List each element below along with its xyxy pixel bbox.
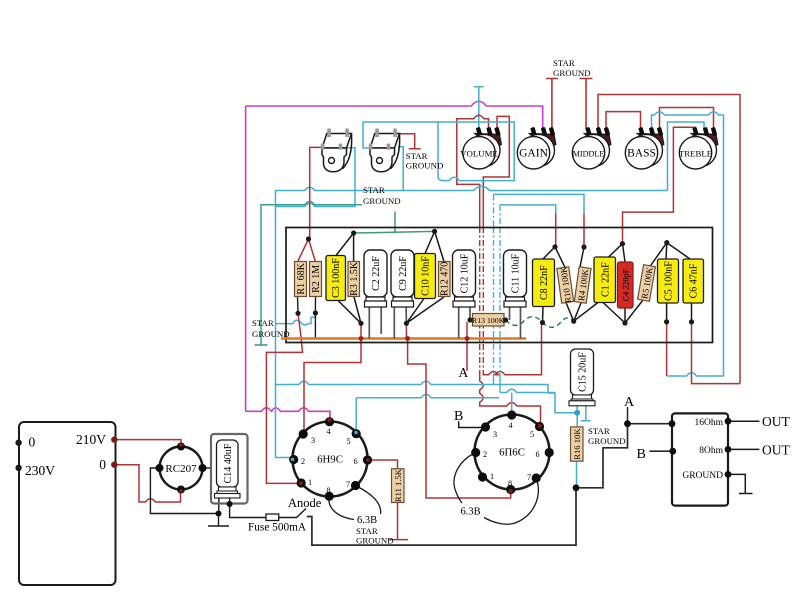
capacitor C1 22nF [594, 257, 616, 303]
jack J1 [321, 129, 352, 172]
wire: cyan C8 R10 line y205 [500, 205, 556, 213]
svg-text:3: 3 [311, 436, 315, 445]
node: R5 C5 C6 diagonals [625, 243, 692, 323]
wire: black node B stub to box [649, 450, 672, 452]
node bus tap 3 [465, 336, 470, 341]
svg-text:TREBLE: TREBLE [679, 148, 712, 158]
capacitor C6 47nF [683, 259, 704, 303]
capacitor C2 legs [369, 307, 381, 339]
svg-text:STAR: STAR [356, 526, 378, 536]
svg-text:R11 1.5K: R11 1.5K [393, 468, 403, 502]
wire: cyan C15 right leg to star ground bar [581, 406, 591, 421]
node C10R12 top [432, 229, 437, 234]
wire: cyan dashed vertical 2 [499, 205, 501, 370]
svg-text:6H9C: 6H9C [317, 454, 343, 466]
svg-text:R2 1M: R2 1M [311, 265, 322, 293]
potentiometer MIDDLE [572, 127, 611, 169]
transformer terminals [15, 440, 21, 471]
svg-text:VOLUME: VOLUME [460, 148, 498, 158]
red pin accents [299, 418, 542, 493]
svg-text:R12 470: R12 470 [440, 262, 451, 296]
orange bus rail [281, 337, 526, 340]
node R1 bottom [295, 311, 300, 316]
wire: black out box ground [728, 474, 753, 493]
fuse F1 body [266, 514, 279, 521]
svg-text:6.3B: 6.3B [357, 515, 377, 526]
node C6 bottom [689, 319, 694, 324]
svg-text:C15 20uF: C15 20uF [578, 352, 589, 392]
node bus tap 2 [405, 336, 410, 341]
wire: magenta left vertical border [245, 106, 247, 411]
capacitor C4 220pF red [618, 262, 634, 308]
capacitor C10 10nF [415, 254, 436, 299]
tube V2 6P6C socket [471, 410, 554, 494]
svg-text:Anode: Anode [288, 496, 322, 510]
svg-text:2: 2 [301, 457, 305, 466]
green dashed wavy link R13 to R10 R4 node [506, 317, 574, 328]
wire: cyan C15 left leg [576, 406, 578, 413]
wire: cyan TREBLE pin B to long mid horizontal [668, 122, 705, 191]
capacitor C9 legs [394, 307, 406, 339]
svg-text:6.3B: 6.3B [461, 507, 481, 518]
svg-text:GROUND: GROUND [363, 196, 401, 206]
wire: red R1 bottom to anode rail to 6H9C pin 1 [266, 313, 302, 483]
cyan pin accents [291, 431, 358, 462]
svg-text:C8 22nF: C8 22nF [539, 265, 550, 300]
svg-text:R1 68K: R1 68K [296, 262, 307, 294]
node: C1 diagonals [574, 244, 625, 323]
svg-text:C5 100nF: C5 100nF [664, 261, 675, 301]
ground bar: C14 ground T-bar [208, 525, 229, 527]
wire: black out box 8 Ohm to OUT [728, 448, 759, 450]
output box terminal dots [669, 418, 732, 478]
node: C3 R3 bottom fan [338, 297, 361, 323]
wire: red C5 bottom down [666, 322, 668, 376]
wire: magenta horizontal to 6H9C pin 4 [246, 408, 330, 422]
svg-text:A: A [459, 365, 469, 380]
heater arc: 6P6C pin 7 to 6.3B [484, 478, 538, 524]
capacitor C14 40uF with can [211, 434, 248, 504]
wire: red BASS pin C to TREBLE pin C [660, 108, 714, 130]
svg-text:8: 8 [508, 479, 512, 488]
node bus tap 1 [359, 336, 364, 341]
wire: black C14 right leg to fuse line [230, 498, 266, 518]
svg-text:R16 10K: R16 10K [572, 428, 582, 460]
heater arc: 6P6C pin 2 to 6.3B [454, 453, 476, 504]
wire: red riser into R4 node [583, 213, 585, 247]
wire: cyan long horizontal y190 [276, 186, 668, 457]
wire: teal star ground line under jack1 [261, 202, 362, 345]
node R4 top [581, 244, 586, 249]
wire: cyan into board to R2 bottom [276, 313, 316, 325]
wire: red dashed vertical 2 through board [482, 227, 484, 370]
capacitor C3 100nF [326, 256, 346, 301]
svg-text:RC207: RC207 [165, 463, 197, 475]
wire: red vertical 2 to C8 bottom [483, 323, 541, 375]
wire: red TREBLE pin A to C1 C4 top node [623, 127, 696, 244]
wire: green riser from star ground text to board bus [394, 212, 396, 234]
capacitor C5 100nF [658, 259, 679, 303]
wire: cyan jack1 sleeve loop [276, 148, 356, 207]
capacitor C12 10uF electrolytic [453, 250, 476, 307]
junction dots bottom section [216, 420, 631, 516]
svg-text:STAR: STAR [588, 426, 610, 436]
node R10R4 bottom [571, 319, 576, 324]
heater arc: 6H9C pin 7 to 6.3B [356, 486, 381, 515]
svg-text:OUT: OUT [762, 414, 790, 429]
wire: cyan pin2 horizontal y384 to C15 riser [276, 381, 578, 413]
tube V1 6H9C socket [289, 417, 372, 501]
svg-text:B: B [637, 447, 646, 462]
potentiometer VOLUME [460, 127, 501, 169]
svg-text:4: 4 [327, 427, 331, 436]
wire: red bus tap to 6P6C pin 8 [408, 339, 511, 499]
junction dot cyan C15 [574, 410, 580, 416]
svg-text:230V: 230V [25, 463, 55, 478]
wire: magenta top horizontal to GAIN pin B [246, 101, 543, 129]
svg-text:B: B [454, 409, 463, 424]
svg-text:2: 2 [483, 450, 487, 459]
node C8 bottom [540, 320, 545, 325]
svg-text:1: 1 [308, 478, 312, 487]
node C8 top [552, 244, 557, 249]
node R2 bottom [313, 310, 318, 315]
wire: cyan pin5 line y398 [356, 395, 499, 398]
wire: red vertical 1 to 6P6C pin 5 [480, 372, 541, 427]
wire: black C14 left leg [218, 498, 220, 514]
potentiometer BASS [625, 127, 664, 169]
wire: red C3 R3 node down to 6H9C pin 3 [304, 323, 361, 434]
output transformer box [672, 413, 728, 505]
svg-text:GROUND: GROUND [553, 68, 591, 78]
node R13 C11 [503, 317, 508, 322]
resistor R10 100K [557, 265, 574, 303]
svg-text:C6 47nF: C6 47nF [689, 263, 700, 298]
svg-text:GROUND: GROUND [252, 329, 290, 339]
rectifier RC207 [156, 443, 207, 494]
svg-text:GROUND: GROUND [588, 436, 626, 446]
node C3R3 bottom [358, 321, 363, 326]
capacitor C15 20uF [569, 349, 595, 406]
svg-text:BASS: BASS [627, 147, 656, 159]
node: C10 R12 bottom fan [406, 297, 444, 323]
svg-text:C11 10uF: C11 10uF [511, 253, 522, 293]
node C1C4 top [620, 241, 625, 246]
svg-text:MIDDLE: MIDDLE [573, 149, 605, 158]
wire: cyan antenna T above VOLUME pin A [474, 87, 484, 128]
wire: black fuse to anode switch [279, 509, 306, 518]
node C9C10 bottom [404, 321, 409, 326]
resistor R2 1M [310, 262, 323, 297]
node C12 R13 [467, 317, 472, 322]
potentiometer GAIN [517, 127, 556, 169]
wire: red riser into C8 R10 node [555, 213, 557, 247]
svg-text:C14 40uF: C14 40uF [223, 443, 234, 483]
wire: cyan BASS pin B to right long vertical [652, 112, 724, 376]
wire: black RC207 right to C14 [204, 467, 211, 469]
node: R4 diagonals [566, 247, 584, 321]
resistor R3 1.5K [348, 261, 360, 296]
svg-text:5: 5 [530, 430, 534, 439]
svg-text:STAR: STAR [363, 185, 385, 195]
wire: red dashed vertical 1 through board [479, 227, 481, 372]
wire: cyan jack2 tip loop [363, 122, 514, 181]
wire: red GAIN pin B riser none / MIDDLE pin B to far right vertical [598, 95, 740, 384]
capacitor C9 22uF electrolytic [391, 250, 414, 307]
resistor R5 100K [638, 265, 656, 302]
svg-text:C9 22uF: C9 22uF [398, 256, 409, 291]
svg-text:C4 220pF: C4 220pF [622, 268, 631, 301]
transformer T1 box [19, 422, 116, 585]
svg-text:STAR: STAR [406, 151, 428, 161]
svg-text:210V: 210V [76, 432, 106, 447]
svg-text:C2 22uF: C2 22uF [371, 256, 382, 291]
capacitor C11 legs [510, 307, 521, 339]
svg-text:16Ohm: 16Ohm [695, 418, 724, 428]
capacitor C2 22uF electrolytic [364, 250, 387, 307]
node: C10 top fan [425, 231, 444, 261]
resistor R16 10K [571, 427, 584, 461]
svg-text:0: 0 [99, 457, 106, 472]
svg-text:8Ohm: 8Ohm [699, 446, 723, 456]
wire: red C9 C10 node through bus down [405, 323, 407, 338]
svg-text:C10 10nF: C10 10nF [421, 256, 432, 296]
svg-text:6: 6 [536, 450, 540, 459]
svg-text:Fuse 500mA: Fuse 500mA [248, 522, 307, 534]
node R1R2 top [306, 236, 311, 241]
wire: red jack2 tip to star ground T [397, 134, 421, 149]
wire: cyan riser to 6H9C pin 5 [355, 398, 357, 434]
wire: green bus on board [354, 231, 435, 233]
svg-text:GROUND: GROUND [682, 471, 723, 481]
svg-text:5: 5 [347, 437, 351, 446]
svg-text:R3 1.5K: R3 1.5K [349, 261, 360, 296]
svg-text:OUT: OUT [762, 443, 790, 458]
svg-text:7: 7 [346, 480, 350, 489]
wire: cyan jack2 sleeve drop to long line [398, 147, 403, 191]
junction dots on board [295, 229, 694, 326]
wire: black anode switch to bottom rail [307, 488, 576, 545]
capacitor C11 10uF electrolytic [504, 250, 527, 307]
node C4 bottom [622, 320, 627, 325]
svg-text:GROUND: GROUND [356, 536, 394, 546]
capacitor C8 22nF [533, 259, 555, 307]
svg-text:A: A [624, 395, 635, 410]
wire: red jack1 tip down to R1 R2 node [298, 147, 323, 262]
node: C3 R3 top fan [336, 233, 354, 262]
wire: red R13 left stub to node A [466, 322, 468, 371]
wire: black out box 16 Ohm to OUT [728, 420, 759, 422]
wire: cyan C15 dot through R16 to rail dot [576, 413, 579, 488]
svg-text:C12 10uF: C12 10uF [460, 253, 471, 293]
jack J2 [369, 129, 400, 172]
wire: black B label stub to 6P6C pin 3 [459, 421, 484, 427]
junction dots red on bus [359, 336, 470, 341]
wire: red 6H9C pin 6 through R11 to star ground [368, 460, 409, 540]
svg-text:0: 0 [29, 435, 36, 450]
wire: red star-ground bar 1 over GAIN pin C [546, 79, 558, 130]
svg-text:R13 100K: R13 100K [472, 316, 505, 325]
wire: red MIDDLE pin C to BASS pin A [606, 112, 641, 129]
resistor R12 470 [439, 262, 451, 297]
wire: cyan R4 top line y194 [494, 194, 585, 213]
svg-text:6: 6 [354, 457, 358, 466]
resistor R1 68K [295, 262, 308, 297]
svg-text:C1 22nF: C1 22nF [600, 262, 611, 297]
capacitor C12 legs [459, 307, 470, 339]
node C5 bottom [664, 319, 669, 324]
svg-text:GAIN: GAIN [519, 147, 548, 159]
wire: black node A stub [627, 407, 629, 424]
node: R1 R2 bottom dots and leads [298, 297, 316, 314]
resistor R11 1.5K [392, 468, 405, 502]
wire: red star-ground bar 2 over MIDDLE pin A [580, 79, 593, 130]
svg-text:C3 100nF: C3 100nF [331, 258, 342, 298]
wire: red VOLUME pin B loop to dashed feed [457, 115, 489, 227]
resistor R4 100K [574, 267, 591, 303]
svg-text:8: 8 [327, 486, 331, 495]
wire: cyan C15 feed line y392 to 6P6C pin 4 [500, 389, 555, 415]
heater arc: 6H9C pin 8 to 6.3B [329, 496, 354, 519]
svg-text:STAR: STAR [553, 58, 575, 68]
svg-text:7: 7 [527, 473, 531, 482]
potentiometer TREBLE [679, 127, 718, 169]
ground bar: teal star ground T-bar [255, 344, 268, 346]
svg-text:1: 1 [490, 472, 494, 481]
wire: red C6 bottom to right vertical [692, 322, 741, 384]
svg-text:6П6C: 6П6C [499, 447, 525, 459]
wire: red 210V to RC207 top [114, 440, 181, 446]
wire: red 0V to RC207 bottom [114, 465, 180, 502]
wire: cyan dashed vertical 1 [493, 194, 495, 370]
resistor R13 100K horizontal [472, 314, 505, 327]
svg-text:GROUND: GROUND [406, 161, 444, 171]
svg-text:3: 3 [493, 430, 497, 439]
wire: black staircase to node A [576, 424, 672, 488]
board outline [286, 228, 713, 343]
node C3R3 top [351, 230, 356, 235]
svg-text:4: 4 [509, 421, 513, 430]
wire: black RC207 left to ground [150, 468, 218, 526]
node: C8 top and bottom diagonals [543, 247, 566, 323]
wire: red VOLUME pin C loop to dashed feed 2 [483, 116, 509, 227]
wire: black R2 bottom leg to bus [314, 313, 316, 339]
node R5 top [664, 240, 669, 245]
svg-text:STAR: STAR [252, 318, 274, 328]
